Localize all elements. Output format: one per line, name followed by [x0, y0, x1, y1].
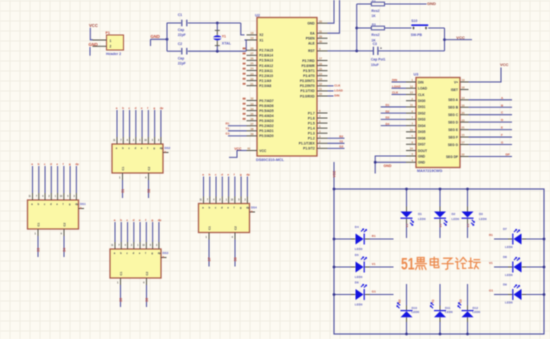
svg-text:P1.1/T2EX: P1.1/T2EX — [299, 142, 316, 146]
svg-text:P0.7/AD7: P0.7/AD7 — [259, 99, 273, 103]
wire — [122, 180, 124, 198]
wire net D4 — [381, 125, 406, 127]
svg-text:18: 18 — [251, 31, 254, 35]
svg-text:S4: S4 — [62, 248, 66, 252]
svg-text:P1: P1 — [106, 31, 110, 35]
svg-text:P2.3/A11: P2.3/A11 — [259, 69, 273, 73]
node — [355, 50, 358, 53]
wire VCC drop to panel — [333, 162, 335, 189]
svg-text:P2.0/A8: P2.0/A8 — [259, 84, 271, 88]
wire — [439, 284, 441, 306]
U3 pin 12 LOAD — [406, 87, 416, 89]
svg-text:V+: V+ — [454, 80, 458, 84]
LED D9 (right column) — [526, 294, 544, 296]
svg-text:22: 22 — [251, 77, 254, 81]
svg-text:f: f — [63, 162, 64, 166]
wire net D2 — [381, 112, 406, 114]
svg-text:10: 10 — [319, 92, 322, 96]
net label — [243, 68, 246, 70]
svg-text:20: 20 — [319, 19, 322, 23]
DS3 segment pin dp — [158, 242, 160, 249]
node — [543, 293, 546, 296]
wire — [120, 222, 122, 242]
svg-text:LED0: LED0 — [355, 275, 363, 279]
U2 pin 15 P3.5/T1 — [317, 70, 328, 72]
DS2 common pin 1 — [122, 173, 124, 180]
wire — [63, 166, 65, 193]
svg-text:f: f — [63, 202, 64, 206]
svg-text:P1.3: P1.3 — [308, 132, 315, 136]
wire — [145, 222, 147, 242]
svg-text:SEG E: SEG E — [448, 128, 458, 132]
wire — [90, 28, 93, 40]
node — [355, 27, 358, 30]
wire net G — [469, 144, 513, 146]
DS1 segment pin a — [32, 193, 34, 200]
U3 pin 8 DIG7 — [406, 143, 416, 145]
svg-text:Cap: Cap — [178, 28, 184, 32]
svg-text:Y2: Y2 — [431, 299, 435, 303]
svg-text:C1: C1 — [208, 226, 212, 230]
svg-text:P0.6/AD6: P0.6/AD6 — [259, 104, 273, 108]
DS2 segment pin d — [135, 137, 137, 144]
svg-text:DIN: DIN — [334, 93, 339, 97]
svg-text:S8: S8 — [233, 257, 237, 261]
wire — [494, 266, 508, 268]
DS2 segment pin a — [116, 137, 118, 144]
svg-text:32: 32 — [251, 97, 254, 101]
svg-text:P3.1/TXD: P3.1/TXD — [300, 89, 315, 93]
svg-text:C2: C2 — [178, 42, 182, 46]
wire net A — [469, 99, 513, 101]
svg-text:LOAD: LOAD — [392, 84, 401, 88]
U2 pin 31 EA — [317, 32, 328, 34]
svg-text:P1.6: P1.6 — [308, 116, 315, 120]
U3 pin 18 ISET — [460, 89, 469, 91]
LED D11 (bottom row) — [439, 322, 441, 334]
wire net R2 — [328, 137, 345, 139]
svg-text:DIG4: DIG4 — [418, 124, 426, 128]
display DS2 body — [112, 144, 163, 173]
wire — [127, 222, 129, 242]
svg-text:R1: R1 — [489, 233, 493, 237]
U2 pin 3 P1.2 — [317, 137, 328, 139]
svg-text:dp: dp — [75, 202, 79, 206]
svg-text:15: 15 — [319, 67, 322, 71]
wire — [147, 110, 149, 137]
DS2 segment pin b — [122, 137, 124, 144]
svg-text:19: 19 — [251, 36, 254, 40]
svg-text:+: + — [380, 46, 382, 50]
svg-text:P0.5/AD5: P0.5/AD5 — [259, 109, 273, 113]
DS1 segment pin e — [57, 193, 59, 200]
svg-text:L1: L1 — [466, 223, 470, 227]
svg-text:D2: D2 — [452, 212, 456, 216]
svg-text:13: 13 — [410, 91, 413, 95]
DS3 common pin 4 — [146, 278, 148, 285]
svg-text:SEG D: SEG D — [448, 120, 459, 124]
U2 pin 20 GND — [317, 22, 328, 24]
LED D8 (right column) — [526, 266, 544, 268]
DS4 segment pin dp — [246, 197, 248, 204]
U2 pin 39 P0.0/AD0 — [247, 135, 258, 137]
U2 pin 4 P1.3 — [317, 132, 328, 134]
wire GND pin 4 — [375, 161, 406, 163]
svg-text:C2: C2 — [147, 166, 151, 170]
svg-text:LOAD: LOAD — [334, 88, 343, 92]
wire — [148, 180, 150, 198]
svg-text:P1.5: P1.5 — [308, 121, 315, 125]
wire — [203, 177, 205, 197]
node — [439, 188, 442, 191]
svg-text:13: 13 — [319, 77, 322, 81]
svg-text:29: 29 — [319, 34, 322, 38]
node — [543, 238, 546, 241]
node — [405, 333, 408, 336]
U3 pin 16 SEG B — [460, 106, 469, 108]
wire — [406, 284, 408, 306]
svg-text:P3.5/T1: P3.5/T1 — [303, 69, 315, 73]
svg-text:DS3: DS3 — [163, 251, 169, 255]
U2 pin 6 P1.5 — [317, 122, 328, 124]
wire V+ to VCC — [469, 68, 502, 83]
wire — [129, 110, 131, 137]
DS3 segment pin d — [133, 242, 135, 249]
LED D7 (right column) — [526, 238, 544, 240]
node: crystal left junction — [166, 38, 169, 41]
svg-text:40: 40 — [247, 147, 250, 151]
svg-text:L1: L1 — [405, 223, 409, 227]
svg-text:LED0: LED0 — [452, 217, 460, 221]
wire — [209, 177, 211, 197]
svg-text:f: f — [234, 206, 235, 210]
svg-text:LED0: LED0 — [355, 247, 363, 251]
svg-text:2: 2 — [110, 45, 112, 49]
svg-text:P2.6/A14: P2.6/A14 — [259, 54, 273, 58]
svg-text:C2: C2 — [234, 226, 238, 230]
U2 pin 18 X2 — [247, 34, 258, 36]
svg-text:14: 14 — [462, 96, 465, 100]
svg-text:R2: R2 — [398, 299, 402, 303]
svg-text:P2.2/A10: P2.2/A10 — [259, 74, 273, 78]
U2 pin 37 P0.2/AD2 — [247, 125, 258, 127]
svg-text:LED0: LED0 — [505, 301, 513, 305]
wire net E — [469, 129, 513, 131]
svg-text:DP: DP — [506, 153, 510, 157]
svg-text:f: f — [234, 172, 235, 176]
node — [443, 38, 446, 41]
svg-text:P0.0/AD0: P0.0/AD0 — [259, 134, 273, 138]
svg-text:P2.4/A12: P2.4/A12 — [259, 64, 273, 68]
svg-text:33: 33 — [251, 102, 254, 106]
svg-text:DIG3: DIG3 — [418, 118, 426, 122]
svg-text:17: 17 — [319, 57, 322, 61]
wire net Y2 — [328, 142, 345, 144]
wire — [494, 294, 508, 296]
wire net C — [469, 114, 513, 116]
svg-text:Cap: Cap — [178, 57, 184, 61]
node — [405, 188, 408, 191]
svg-text:D4: D4 — [355, 225, 359, 229]
svg-text:36: 36 — [251, 117, 254, 121]
DS2 segment pin c — [129, 137, 131, 144]
svg-text:LED0: LED0 — [505, 245, 513, 249]
svg-text:DIG1: DIG1 — [418, 105, 426, 109]
net label — [243, 118, 246, 120]
U2 pin 21 P2.0/A8 — [247, 85, 258, 87]
wire — [122, 110, 124, 137]
U3 pin 21 SEG E — [460, 129, 469, 131]
svg-text:S10: S10 — [411, 19, 417, 23]
wire — [467, 284, 469, 306]
wire net B — [469, 106, 513, 108]
pin 2 — [93, 45, 107, 47]
svg-text:12: 12 — [319, 82, 322, 86]
svg-text:LED0: LED0 — [473, 310, 481, 314]
svg-text:Y1: Y1 — [226, 127, 230, 131]
DS1 segment pin b — [38, 193, 40, 200]
svg-text:dp: dp — [160, 146, 164, 150]
wire — [146, 285, 148, 307]
wire — [57, 166, 59, 193]
wire GND pin 9 — [375, 156, 406, 174]
svg-text:DS2: DS2 — [165, 146, 171, 150]
svg-text:dp: dp — [246, 206, 250, 210]
DS3 common pin 1 — [120, 278, 122, 285]
DS1 segment pin g — [69, 193, 71, 200]
wire net CLK — [328, 85, 334, 87]
crystal Y1 — [216, 23, 218, 30]
net label — [243, 103, 246, 105]
svg-text:Res2: Res2 — [371, 33, 379, 37]
DS4 common pin 1 — [208, 233, 210, 240]
wire — [44, 166, 46, 193]
DS4 segment pin b — [209, 197, 211, 204]
svg-text:24: 24 — [251, 67, 254, 71]
svg-text:34: 34 — [251, 107, 254, 111]
svg-text:g: g — [151, 218, 153, 222]
svg-text:GND: GND — [307, 22, 315, 26]
wire to X2 — [241, 23, 245, 35]
DS4 segment pin c — [215, 197, 217, 204]
svg-text:dp: dp — [160, 106, 164, 110]
svg-text:P3.7/RD: P3.7/RD — [302, 59, 315, 63]
svg-text:DOUT: DOUT — [418, 149, 427, 153]
wire — [135, 110, 137, 137]
svg-text:22pF: 22pF — [178, 33, 186, 37]
svg-text:LED0: LED0 — [355, 303, 363, 307]
net label — [243, 53, 246, 55]
svg-text:D3: D3 — [386, 116, 390, 120]
svg-text:16: 16 — [462, 103, 465, 107]
svg-text:G2: G2 — [459, 299, 463, 303]
svg-text:f: f — [147, 106, 148, 110]
svg-text:C1: C1 — [37, 222, 41, 226]
svg-text:22pF: 22pF — [178, 62, 186, 66]
U2 pin 36 P0.3/AD3 — [247, 120, 258, 122]
svg-text:28: 28 — [251, 47, 254, 51]
svg-text:d: d — [221, 172, 223, 176]
U2 pin 25 P2.4/A12 — [247, 64, 258, 66]
svg-text:S5: S5 — [119, 298, 123, 302]
svg-text:D9: D9 — [503, 283, 507, 287]
svg-text:GND: GND — [151, 34, 160, 39]
svg-text:SEG DP: SEG DP — [446, 155, 459, 159]
DS2 common pin 4 — [148, 173, 150, 180]
svg-text:P3.0/RXD: P3.0/RXD — [300, 94, 315, 98]
svg-text:51: 51 — [401, 256, 415, 274]
svg-text:23: 23 — [251, 72, 254, 76]
svg-text:SEG G: SEG G — [448, 143, 459, 147]
display DS4 body — [199, 204, 250, 233]
svg-text:G1: G1 — [372, 290, 376, 294]
DS1 segment pin c — [44, 193, 46, 200]
svg-text:P1.0/T2: P1.0/T2 — [303, 147, 315, 151]
svg-text:22: 22 — [462, 153, 465, 157]
DS4 segment pin e — [228, 197, 230, 204]
wire — [50, 166, 52, 193]
U2 pin 35 P0.4/AD4 — [247, 115, 258, 117]
DS2 segment pin g — [154, 137, 156, 144]
node — [439, 333, 442, 336]
svg-text:f: f — [145, 251, 146, 255]
svg-text:PSEN: PSEN — [306, 37, 316, 41]
DS1 segment pin f — [63, 193, 65, 200]
wire R1 row — [357, 3, 372, 5]
svg-text:27: 27 — [251, 52, 254, 56]
DS1 common pin 4 — [63, 229, 65, 236]
svg-text:P2.5/A13: P2.5/A13 — [259, 59, 273, 63]
U2 pin 1 P1.0/T2 — [317, 147, 328, 149]
svg-text:g: g — [153, 106, 155, 110]
node — [333, 238, 336, 241]
svg-text:1K: 1K — [371, 14, 376, 18]
U2 pin 28 P2.7/A15 — [247, 49, 258, 51]
U2 pin 23 P2.2/A10 — [247, 75, 258, 77]
svg-text:C1: C1 — [178, 13, 182, 17]
node — [216, 50, 219, 53]
svg-text:MAX7219CWG: MAX7219CWG — [417, 169, 443, 173]
svg-text:30: 30 — [319, 40, 322, 44]
svg-text:P1.4: P1.4 — [308, 126, 315, 130]
U3 pin 4 GND — [406, 161, 416, 163]
wire net Y1 — [228, 130, 247, 132]
U3 pin 13 CLK — [406, 93, 416, 95]
U3 pin 11 DIG1 — [406, 106, 416, 108]
U2 pin 13 P3.3/INT1 — [317, 80, 328, 82]
wire net R1 — [228, 125, 247, 127]
U2 pin 16 P3.6/WR — [317, 65, 328, 67]
watermark 51 heizi forum — [401, 256, 480, 274]
svg-text:ALE: ALE — [308, 42, 315, 46]
svg-text:D2: D2 — [386, 109, 390, 113]
svg-text:38: 38 — [251, 127, 254, 131]
svg-text:LED0: LED0 — [445, 310, 453, 314]
svg-text:P1.2: P1.2 — [308, 137, 315, 141]
net label — [243, 98, 246, 100]
U2 pin 30 ALE — [317, 42, 328, 44]
svg-text:10uF: 10uF — [371, 63, 379, 67]
svg-text:RST: RST — [308, 49, 315, 53]
svg-text:D1: D1 — [386, 103, 390, 107]
U3 pin 19 V+ — [460, 81, 469, 83]
net label — [243, 58, 246, 60]
svg-text:C2: C2 — [145, 271, 149, 275]
wire — [160, 110, 162, 137]
wire bottom — [167, 50, 181, 52]
svg-text:R1: R1 — [372, 234, 376, 238]
DS4 right pin — [250, 211, 256, 213]
svg-text:DS4: DS4 — [251, 206, 257, 210]
wire — [89, 47, 91, 56]
svg-text:P3.4/T0: P3.4/T0 — [303, 74, 315, 78]
svg-text:G2: G2 — [339, 144, 343, 148]
svg-text:D6: D6 — [355, 281, 359, 285]
svg-text:21: 21 — [251, 82, 254, 86]
wire — [494, 238, 508, 240]
svg-text:GND: GND — [418, 154, 426, 158]
svg-text:DS80C310-MCL: DS80C310-MCL — [256, 158, 285, 162]
wire — [406, 224, 408, 239]
wire — [139, 222, 141, 242]
svg-text:SEG A: SEG A — [448, 98, 458, 102]
svg-text:VCC: VCC — [332, 170, 336, 177]
svg-text:SEG F: SEG F — [448, 135, 458, 139]
svg-text:GND: GND — [427, 1, 436, 6]
DS3 segment pin g — [152, 242, 154, 249]
svg-text:10: 10 — [410, 128, 413, 132]
DS3 segment pin f — [145, 242, 147, 249]
svg-text:25: 25 — [251, 62, 254, 66]
wire to X1 — [245, 40, 247, 51]
U3 pin 23 SEG D — [460, 121, 469, 123]
svg-text:dp: dp — [75, 162, 79, 166]
U3 pin 15 SEG F — [460, 136, 469, 138]
svg-text:b: b — [209, 172, 211, 176]
U2 pin 9 RST — [317, 50, 328, 52]
svg-text:D4: D4 — [386, 122, 390, 126]
svg-text:f: f — [147, 146, 148, 150]
svg-text:D1: D1 — [418, 212, 422, 216]
U3 pin 2 DIG0 — [406, 100, 416, 102]
LED D3 (top row) — [467, 189, 469, 207]
svg-text:19: 19 — [462, 78, 465, 82]
svg-text:39: 39 — [251, 132, 254, 136]
svg-text:DS1: DS1 — [80, 202, 86, 206]
svg-text:DIG0: DIG0 — [418, 99, 426, 103]
U3 pin 6 DIG2 — [406, 112, 416, 114]
LED D4 (left column) — [334, 238, 351, 240]
LED panel border wire — [334, 189, 544, 334]
svg-text:24: 24 — [410, 147, 413, 151]
svg-text:DIN: DIN — [418, 80, 424, 84]
svg-text:D8: D8 — [503, 255, 507, 259]
svg-text:SEG B: SEG B — [448, 106, 459, 110]
wire left vertical of reset network — [356, 4, 358, 51]
U2 pin 17 P3.7/RD — [317, 60, 328, 62]
svg-text:VCC: VCC — [89, 23, 98, 28]
svg-text:Cap Pol1: Cap Pol1 — [371, 57, 386, 61]
svg-text:LED0: LED0 — [505, 273, 513, 277]
wire — [228, 177, 230, 197]
LED D2 (top row) — [439, 189, 441, 207]
U2 pin 32 P0.7/AD7 — [247, 100, 258, 102]
svg-text:SEG C: SEG C — [448, 113, 459, 117]
U3 pin 7 DIG3 — [406, 118, 416, 120]
wire — [221, 177, 223, 197]
svg-text:23: 23 — [462, 118, 465, 122]
net label — [243, 48, 246, 50]
